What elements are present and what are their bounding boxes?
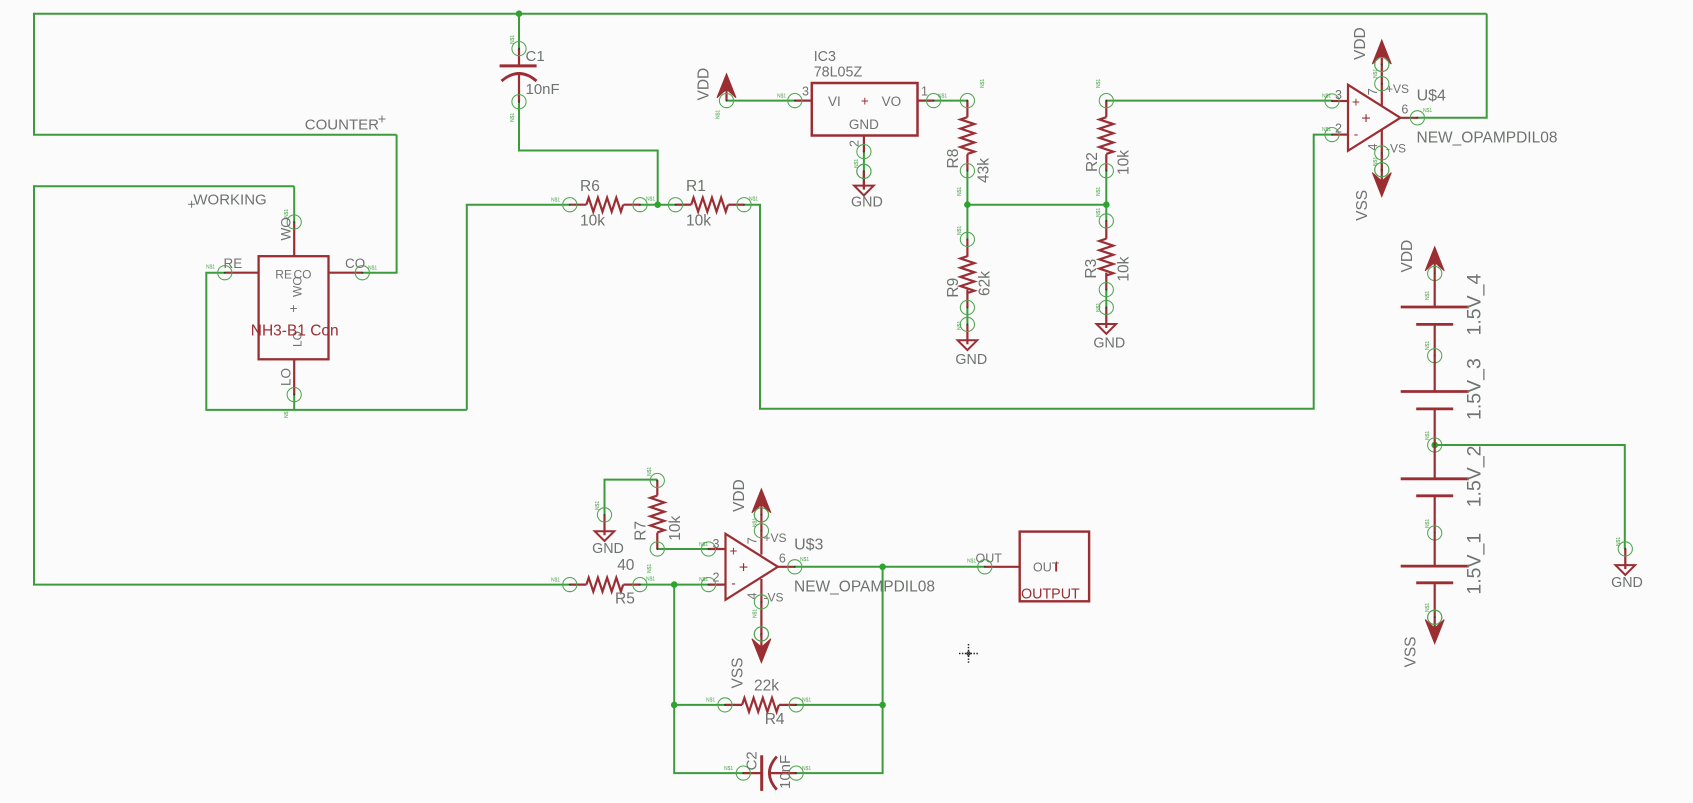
svg-text:GND: GND [955,352,987,368]
svg-text:N$1: N$1 [284,409,290,418]
wire [1105,290,1107,308]
svg-text:N$1: N$1 [699,577,708,583]
wire [966,171,968,240]
svg-text:N$1: N$1 [1425,341,1431,350]
supply VSS (battery) [1403,610,1445,667]
svg-text:2: 2 [848,140,862,147]
svg-text:N$1: N$1 [957,187,963,196]
svg-text:N$1: N$1 [1096,208,1102,217]
resistor R9 [945,226,994,330]
svg-text:VDD: VDD [731,479,748,512]
svg-text:N$1: N$1 [1373,157,1379,166]
svg-text:+: + [1352,95,1360,110]
svg-text:10k: 10k [686,212,711,229]
wire [674,705,743,773]
svg-text:10k: 10k [1116,150,1133,175]
svg-text:NH3-B1 Con: NH3-B1 Con [251,322,339,339]
capacitor C1 [500,35,560,122]
svg-text:10k: 10k [667,516,684,541]
svg-text:R7: R7 [633,521,650,541]
svg-text:6: 6 [1401,102,1408,116]
svg-text:IC3: IC3 [814,49,836,65]
svg-text:N$1: N$1 [551,198,560,204]
junction R8-R9 node [964,201,971,208]
svg-text:3: 3 [713,537,720,551]
svg-text:10k: 10k [580,212,605,229]
svg-text:GND: GND [1611,575,1643,591]
wire [519,102,658,205]
wire [657,548,708,550]
wire [33,185,35,584]
resistor R8 [945,79,993,196]
svg-text:R8: R8 [945,149,962,169]
wire [727,100,795,102]
svg-text:N$1: N$1 [802,698,811,704]
wire [1417,14,1486,118]
wire [640,204,676,206]
svg-text:+VS: +VS [764,531,787,545]
svg-text:RE: RE [275,268,292,282]
op-amp U$3 [699,508,935,641]
svg-text:N$1: N$1 [938,94,947,100]
svg-text:NEW_OPAMPDIL08: NEW_OPAMPDIL08 [1417,129,1558,146]
svg-text:-VS: -VS [1386,142,1406,156]
wire [744,135,1332,409]
svg-text:GND: GND [1093,335,1125,351]
svg-text:N$1: N$1 [716,110,722,119]
svg-text:N$1: N$1 [967,559,976,565]
svg-text:4: 4 [746,593,760,600]
svg-text:WO: WO [279,217,294,240]
junction R2-R3 node [1103,201,1110,208]
svg-text:VO: VO [882,94,902,109]
wire [795,566,985,568]
resistor R6 [551,178,647,230]
svg-text:N$1: N$1 [647,564,653,573]
junction R4 left node [671,702,678,709]
svg-text:R9: R9 [945,278,962,298]
svg-text:-: - [1354,127,1359,142]
wire [1106,100,1332,102]
svg-text:OUT: OUT [1033,561,1060,575]
svg-text:LO: LO [279,368,294,386]
wire [967,204,1106,206]
op-amp U$4 [1322,57,1557,176]
connector NH3-B1 Con [206,209,377,418]
ground GND (IC3) [857,164,871,189]
resistor R4 [706,677,811,728]
resistor R3 [1083,208,1133,312]
svg-text:WORKING: WORKING [193,192,266,209]
svg-text:N$1: N$1 [510,113,516,122]
svg-text:+: + [739,559,748,576]
svg-text:N$1: N$1 [646,197,655,203]
svg-text:N$1: N$1 [800,557,809,563]
svg-text:N$1: N$1 [1322,127,1331,133]
svg-text:1.5V_2: 1.5V_2 [1464,445,1486,507]
svg-text:6: 6 [779,551,786,565]
wire [518,14,520,49]
svg-text:N$1: N$1 [706,698,715,704]
svg-text:N$1: N$1 [647,467,653,476]
wire [362,135,396,273]
svg-text:N$1: N$1 [1616,537,1622,546]
wire [796,704,882,706]
svg-text:R5: R5 [615,591,635,608]
supply VSS (U$4) [1354,163,1391,221]
wire [1435,445,1625,549]
svg-text:GND: GND [592,541,624,557]
svg-text:R4: R4 [765,711,785,728]
resistor R2 [1084,79,1133,196]
svg-text:1.5V_3: 1.5V_3 [1464,358,1486,420]
svg-text:N$1: N$1 [699,542,708,548]
wire [966,308,968,325]
supply VSS (U$3) [730,627,771,689]
svg-text:10nF: 10nF [777,755,794,789]
svg-text:43k: 43k [976,158,993,183]
svg-text:GND: GND [849,117,879,132]
svg-text:N$1: N$1 [1425,519,1431,528]
voltage regulator IC3 78L05Z [777,49,947,168]
svg-text:VDD: VDD [1399,240,1416,273]
resistor R1 [646,178,758,230]
svg-text:VI: VI [828,94,841,109]
svg-text:1.5V_1: 1.5V_1 [1464,533,1486,595]
svg-text:N$1: N$1 [368,266,377,272]
svg-text:78L05Z: 78L05Z [814,65,863,81]
svg-text:+VS: +VS [1386,82,1409,96]
svg-text:WO: WO [291,276,305,297]
net label WORKING [188,192,267,209]
svg-text:C1: C1 [526,48,545,65]
wire [934,100,968,102]
svg-text:N$1: N$1 [1322,94,1331,100]
svg-text:1.5V_4: 1.5V_4 [1464,274,1486,336]
battery cell 1.5V_2 [1401,445,1486,540]
junction output feedback node [879,564,886,571]
svg-text:N$1: N$1 [206,265,215,271]
svg-text:N$1: N$1 [957,226,963,235]
svg-text:OUTPUT: OUTPUT [1021,587,1080,603]
svg-text:N$1: N$1 [1425,291,1431,300]
svg-text:N$1: N$1 [777,94,786,100]
wire [1105,171,1107,221]
junction battery mid tap [1431,442,1438,449]
wire [206,273,467,410]
wire [293,395,295,410]
resistor R5 [551,557,655,608]
svg-text:N$1: N$1 [753,609,759,618]
svg-text:N$1: N$1 [284,209,290,218]
svg-text:N$1: N$1 [595,501,601,510]
svg-text:VSS: VSS [1354,190,1371,221]
svg-text:C2: C2 [744,751,761,770]
cursor crosshair [959,644,978,663]
capacitor C2 [724,751,811,791]
svg-text:7: 7 [746,537,760,544]
svg-text:N$1: N$1 [980,79,986,88]
wire [605,480,658,515]
svg-text:N$1: N$1 [1096,79,1102,88]
svg-text:2: 2 [1335,122,1342,136]
ground GND (battery mid tap) [1611,542,1643,591]
battery cell 1.5V_1 [1401,533,1486,625]
svg-text:R3: R3 [1083,259,1100,279]
ground GND (R7) [592,508,624,558]
svg-text:22k: 22k [754,677,779,694]
svg-text:CO: CO [345,256,365,271]
svg-text:+: + [1361,110,1370,127]
junction U$3 inverting input node [671,581,678,588]
wire [34,13,1487,15]
svg-text:VSS: VSS [730,657,747,688]
svg-text:+: + [730,544,738,559]
ground GND (R9) [955,317,987,368]
svg-text:3: 3 [1335,88,1342,102]
wire [1381,153,1383,170]
wire [33,13,35,135]
svg-text:N$1: N$1 [1096,187,1102,196]
battery cell 1.5V_4 [1401,274,1486,363]
svg-text:U$4: U$4 [1417,87,1446,104]
svg-text:7: 7 [1366,88,1380,95]
svg-text:10nF: 10nF [526,81,560,98]
wire [467,205,570,410]
svg-text:10k: 10k [1116,256,1133,281]
resistor R7 [633,467,684,573]
wire [673,585,675,705]
svg-text:U$3: U$3 [794,536,823,553]
wire [33,134,397,136]
ground GND (R3) [1093,300,1125,351]
svg-text:1: 1 [921,85,928,99]
svg-text:N$1: N$1 [510,35,516,44]
svg-text:40: 40 [617,557,635,574]
svg-text:N$1: N$1 [551,578,560,584]
wire [640,584,709,586]
svg-text:-: - [731,576,736,591]
battery cell 1.5V_3 [1401,356,1486,452]
svg-text:COUNTER: COUNTER [305,116,379,133]
svg-text:NEW_OPAMPDIL08: NEW_OPAMPDIL08 [794,578,935,595]
svg-text:R1: R1 [686,178,706,195]
junction at C1/top rail [516,10,523,17]
svg-text:N$1: N$1 [802,766,811,772]
svg-text:GND: GND [851,195,883,211]
wire [796,567,882,773]
wire [674,704,725,706]
net label COUNTER [305,116,386,134]
junction R6-R1 node [654,201,661,208]
supply VDD (battery) [1399,240,1444,281]
supply VDD (U$4) [1352,27,1391,71]
svg-text:+: + [290,301,298,316]
svg-text:N$1: N$1 [1423,108,1432,114]
svg-text:VDD: VDD [1352,27,1369,60]
wire [863,152,865,172]
svg-text:R2: R2 [1084,152,1101,172]
wire [293,186,295,222]
svg-text:N$1: N$1 [1425,603,1431,612]
wire [760,602,762,634]
svg-text:R6: R6 [580,178,600,195]
supply VDD (IC3 input) [696,68,737,108]
svg-text:-VS: -VS [764,591,784,605]
svg-text:OUT: OUT [976,552,1003,566]
svg-text:N$1: N$1 [749,197,758,203]
svg-text:VDD: VDD [696,68,713,101]
svg-text:3: 3 [802,85,809,99]
wire [34,185,294,187]
junction R4 right node [879,702,886,709]
svg-text:62k: 62k [977,271,994,296]
wire [33,584,570,586]
svg-text:VSS: VSS [1403,636,1420,667]
svg-text:RE: RE [224,256,243,271]
supply VDD (U$3) [731,479,771,522]
svg-text:N$1: N$1 [646,577,655,583]
svg-text:4: 4 [1366,144,1380,151]
svg-text:N$1: N$1 [1425,431,1431,440]
svg-text:N$1: N$1 [724,766,733,772]
connector OUTPUT [967,532,1089,603]
svg-text:+: + [861,94,869,109]
svg-text:2: 2 [713,571,720,585]
